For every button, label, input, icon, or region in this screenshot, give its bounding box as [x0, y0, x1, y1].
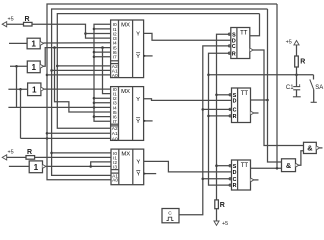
- wire bus94 to MX1 I7: [94, 56, 111, 58]
- svg-text:Y: Y: [136, 54, 140, 60]
- wire clock bus to TT3 C: [203, 178, 232, 180]
- svg-text:I3: I3: [113, 164, 117, 170]
- svg-text:MX: MX: [121, 89, 130, 95]
- svg-text:+5: +5: [8, 17, 14, 23]
- svg-text:TT: TT: [241, 163, 249, 169]
- wire distribution bus x94: [94, 24, 111, 121]
- node I5 line bus3 tap: [53, 46, 56, 49]
- svg-text:Y: Y: [136, 97, 140, 103]
- wire reset to SA: [209, 74, 314, 76]
- svg-text:R: R: [233, 183, 237, 189]
- wire input stub to gate 3: [8, 88, 27, 90]
- wire bus94 to MX2 I6: [94, 116, 111, 118]
- svg-text:1: 1: [31, 63, 36, 72]
- node I4 line / bus94: [93, 106, 96, 109]
- svg-text:R: R: [27, 149, 32, 156]
- svg-text:S: S: [233, 164, 237, 170]
- wire L2 vertical: [20, 89, 22, 138]
- wire MX2 A0 line: [21, 137, 111, 139]
- D flip-flop TT1 (DD4.1): [228, 28, 253, 59]
- node gate3-input / L2: [19, 88, 22, 91]
- node gate4 line to I2 riser: [89, 165, 92, 168]
- svg-text:Y: Y: [136, 32, 140, 38]
- svg-text:1: 1: [34, 163, 39, 172]
- wire L1 vertical: [16, 66, 18, 107]
- wire gate2 out to MX1 I5: [43, 48, 110, 67]
- wire MX2 inverse Y stub: [144, 120, 153, 122]
- wire tap to MX2 I1: [103, 48, 111, 94]
- svg-text:R: R: [25, 16, 30, 23]
- wire AND1 out to AND2: [299, 151, 304, 166]
- resistor R3: [215, 200, 219, 209]
- svg-text:+5: +5: [8, 150, 14, 156]
- wire gate4 out to MX3 I3: [46, 165, 111, 167]
- svg-text:MX: MX: [121, 152, 130, 158]
- svg-text:C: C: [232, 44, 236, 50]
- wire bus2 to MX3 I0: [52, 152, 111, 154]
- wire input stub to gate 1: [9, 42, 27, 44]
- svg-text:TT: TT: [241, 91, 249, 97]
- svg-text:I7: I7: [113, 55, 117, 61]
- wire +5 to R1: [7, 23, 24, 25]
- node set bus TT2 S: [215, 94, 218, 97]
- AND gate DD7.1: [282, 159, 299, 172]
- wire input stub to gate 4: [9, 165, 29, 167]
- buffer gate 2 (DD6.2): [27, 61, 43, 73]
- wire reset bus: [209, 53, 232, 185]
- node I5 line 102-tap: [101, 46, 104, 49]
- wire clock bus to TT2 C: [203, 108, 232, 110]
- wire MX1 Y to TT1 D: [144, 33, 231, 40]
- svg-text:D: D: [233, 170, 237, 176]
- wire bus4 to MX1 A2: [57, 65, 110, 67]
- wire bus94 to MX1 I1: [94, 28, 111, 30]
- D flip-flop TT2 (DD4.2): [229, 88, 254, 123]
- node reset bus TT2 R: [207, 115, 210, 118]
- svg-text:R: R: [300, 58, 305, 65]
- wire junction to C1: [296, 75, 298, 87]
- node bus94 MX2 I2: [93, 97, 96, 100]
- resistor R4: [295, 56, 299, 67]
- svg-text:C: C: [168, 211, 172, 217]
- wire riser to MX3 I2: [91, 162, 111, 167]
- svg-text:A1: A1: [112, 131, 118, 137]
- svg-text:&: &: [307, 144, 313, 153]
- wire R1 to MX1 I2/I3: [32, 24, 111, 38]
- power +5 terminal (right): [294, 41, 299, 45]
- node A0 line / bus1: [46, 137, 49, 140]
- wire TT3 Q riser to bus1: [276, 4, 278, 168]
- svg-text:+5: +5: [286, 40, 292, 46]
- wire set bus to TT3 S: [217, 165, 232, 167]
- multiplexer MX1 (DD1): [111, 20, 144, 79]
- svg-text:A2: A2: [112, 126, 118, 132]
- wire bus1 to MX2 A1: [47, 132, 111, 134]
- wire TT1 inverse out to AND2: [253, 50, 304, 146]
- clock generator G1: [162, 209, 179, 223]
- wire C1 to rail: [296, 90, 298, 97]
- svg-text:Y: Y: [136, 119, 140, 125]
- power +5 terminal (top left): [2, 22, 7, 27]
- wire TT2 Q riser: [251, 9, 268, 100]
- node bus1 MX1 A0: [46, 74, 49, 77]
- wire bus1 to MX1 A0: [47, 74, 111, 76]
- svg-text:C: C: [233, 108, 237, 114]
- node clock bus TT3 C: [202, 178, 205, 181]
- node R4/C1 junction: [295, 74, 298, 77]
- power +5 terminal (bottom): [214, 221, 219, 225]
- wire feedback bus1 (TT3 Q): [47, 4, 277, 180]
- wire R3 to +5: [216, 209, 218, 221]
- D flip-flop TT3 (DD5.1): [229, 160, 254, 190]
- wire MX2 Y to TT2 D: [144, 99, 232, 101]
- wire junction to MX1 I2: [86, 33, 111, 35]
- wire feedback bus4 (TT1 Q): [57, 14, 259, 129]
- node bus2 MX3 I0: [50, 152, 53, 155]
- wire feedback bus2 (TT2 Q): [52, 9, 268, 175]
- wire MX1 inverse Y stub: [144, 55, 153, 57]
- wire gate1 out to MX1 I4: [43, 42, 110, 44]
- wire set bus: [217, 34, 231, 200]
- wire clock bus: [179, 46, 231, 215]
- power +5 terminal (bottom left): [2, 155, 7, 160]
- node gate2-input / L1: [15, 65, 18, 68]
- wire input stub to gate 2: [10, 65, 27, 67]
- wire MX3 Y to TT3 D: [144, 161, 232, 172]
- node TT2 Q riser: [266, 99, 269, 102]
- capacitor C1: [293, 86, 300, 88]
- wire AND2 output stub: [320, 147, 323, 149]
- buffer gate 4 (DD6.4): [29, 161, 46, 173]
- svg-text:C: C: [233, 177, 237, 183]
- node clock bus TT2 C: [202, 108, 205, 111]
- svg-text:I7: I7: [113, 119, 117, 125]
- wire R4 lead down: [296, 67, 298, 75]
- svg-text:A0: A0: [112, 136, 118, 142]
- wire bus3 to MX2 I5: [55, 48, 111, 112]
- node bus2 MX1 A1: [50, 69, 53, 72]
- svg-text:C1: C1: [286, 85, 294, 91]
- svg-text:R: R: [232, 51, 236, 57]
- buffer gate 1 (DD6.1): [27, 38, 43, 49]
- resistor R2: [26, 156, 35, 160]
- wire bus94 to MX2 I3: [94, 102, 111, 104]
- svg-text:SA: SA: [315, 85, 323, 91]
- resistor R1: [24, 22, 33, 26]
- wire MX3 inverse Y stub: [144, 173, 157, 175]
- wire TT3 Q to AND1: [251, 167, 282, 169]
- switch SA: [313, 75, 315, 80]
- wire TT3 inverse out stub: [254, 179, 259, 181]
- svg-text:MX: MX: [121, 22, 130, 28]
- node reset bus RC line: [207, 74, 210, 77]
- AND gate DD7.2: [304, 142, 320, 153]
- wire bus94 to MX2 I2: [94, 97, 111, 99]
- multiplexer MX2 (DD2): [111, 87, 144, 143]
- wire reset bus to TT2 R: [209, 115, 232, 117]
- wire R4 to +5: [296, 45, 298, 56]
- svg-text:D: D: [233, 99, 237, 105]
- svg-text:Y: Y: [136, 172, 140, 178]
- wire +5 to R2: [7, 156, 26, 158]
- svg-text:R: R: [220, 202, 225, 209]
- wire gate3 out to MX2 I0: [44, 88, 111, 90]
- node bus94 MX1 I7: [93, 55, 96, 58]
- buffer gate 3 (DD6.3): [28, 83, 45, 96]
- wire R2 to MX3 I1: [35, 156, 111, 158]
- node bus1 MX2 A1: [46, 132, 49, 135]
- node TT3 Q riser: [276, 167, 279, 170]
- node bus94 MX1 I1: [93, 28, 96, 31]
- node bus94 MX2 I6: [93, 115, 96, 118]
- svg-text:1: 1: [32, 85, 37, 94]
- wire bus94 to MX1 I6: [94, 51, 111, 53]
- node bus94 MX2 I3: [93, 102, 96, 105]
- svg-text:A0: A0: [112, 178, 118, 184]
- wire TT1 Q to bus4: [250, 14, 260, 36]
- wire bus2 to MX1 A1: [52, 69, 111, 71]
- svg-text:R: R: [233, 114, 237, 120]
- wire TT2 Q down to AND1: [268, 100, 282, 162]
- node set bus TT3 S: [215, 164, 218, 167]
- wire set bus to TT2 S: [217, 94, 232, 96]
- svg-text:TT: TT: [240, 31, 248, 37]
- node bus94 MX1 I6: [93, 51, 96, 54]
- multiplexer MX3 (DD3): [111, 149, 144, 185]
- svg-text:1: 1: [31, 40, 36, 49]
- svg-text:+5: +5: [222, 221, 228, 227]
- svg-text:Y: Y: [136, 160, 140, 166]
- wire TT2 inverse out stub: [254, 112, 259, 114]
- svg-text:A0: A0: [112, 73, 118, 79]
- wire MX2 I4 line: [8, 106, 110, 108]
- svg-text:&: &: [286, 161, 292, 170]
- node bus4 MX1 A2: [56, 65, 59, 68]
- node R1-I2 junction: [84, 32, 87, 35]
